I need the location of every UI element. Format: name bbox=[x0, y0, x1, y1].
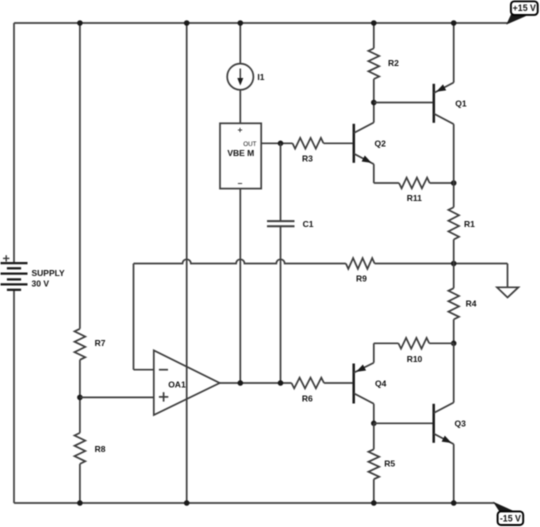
svg-text:R5: R5 bbox=[384, 459, 395, 469]
svg-text:R3: R3 bbox=[302, 153, 313, 163]
svg-text:Q2: Q2 bbox=[375, 138, 387, 148]
svg-text:R9: R9 bbox=[356, 273, 367, 283]
svg-text:-15 V: -15 V bbox=[500, 514, 521, 524]
svg-text:OA1: OA1 bbox=[168, 380, 186, 390]
svg-text:Q4: Q4 bbox=[375, 379, 387, 389]
svg-text:R10: R10 bbox=[407, 354, 423, 364]
svg-text:R7: R7 bbox=[95, 338, 106, 348]
svg-text:VBE M: VBE M bbox=[227, 148, 254, 158]
svg-text:+15 V: +15 V bbox=[513, 3, 536, 13]
svg-text:30 V: 30 V bbox=[32, 279, 50, 289]
svg-text:R11: R11 bbox=[407, 193, 422, 203]
svg-text:C1: C1 bbox=[303, 219, 314, 229]
svg-text:SUPPLY: SUPPLY bbox=[32, 268, 66, 278]
svg-text:OUT: OUT bbox=[243, 141, 256, 148]
svg-text:Q3: Q3 bbox=[455, 418, 467, 428]
svg-text:R6: R6 bbox=[302, 393, 313, 403]
svg-text:R1: R1 bbox=[464, 219, 475, 229]
svg-text:R8: R8 bbox=[95, 444, 106, 454]
svg-text:Q1: Q1 bbox=[455, 98, 467, 108]
svg-text:R4: R4 bbox=[466, 298, 477, 308]
svg-text:I1: I1 bbox=[257, 72, 264, 82]
svg-text:R2: R2 bbox=[388, 58, 399, 68]
